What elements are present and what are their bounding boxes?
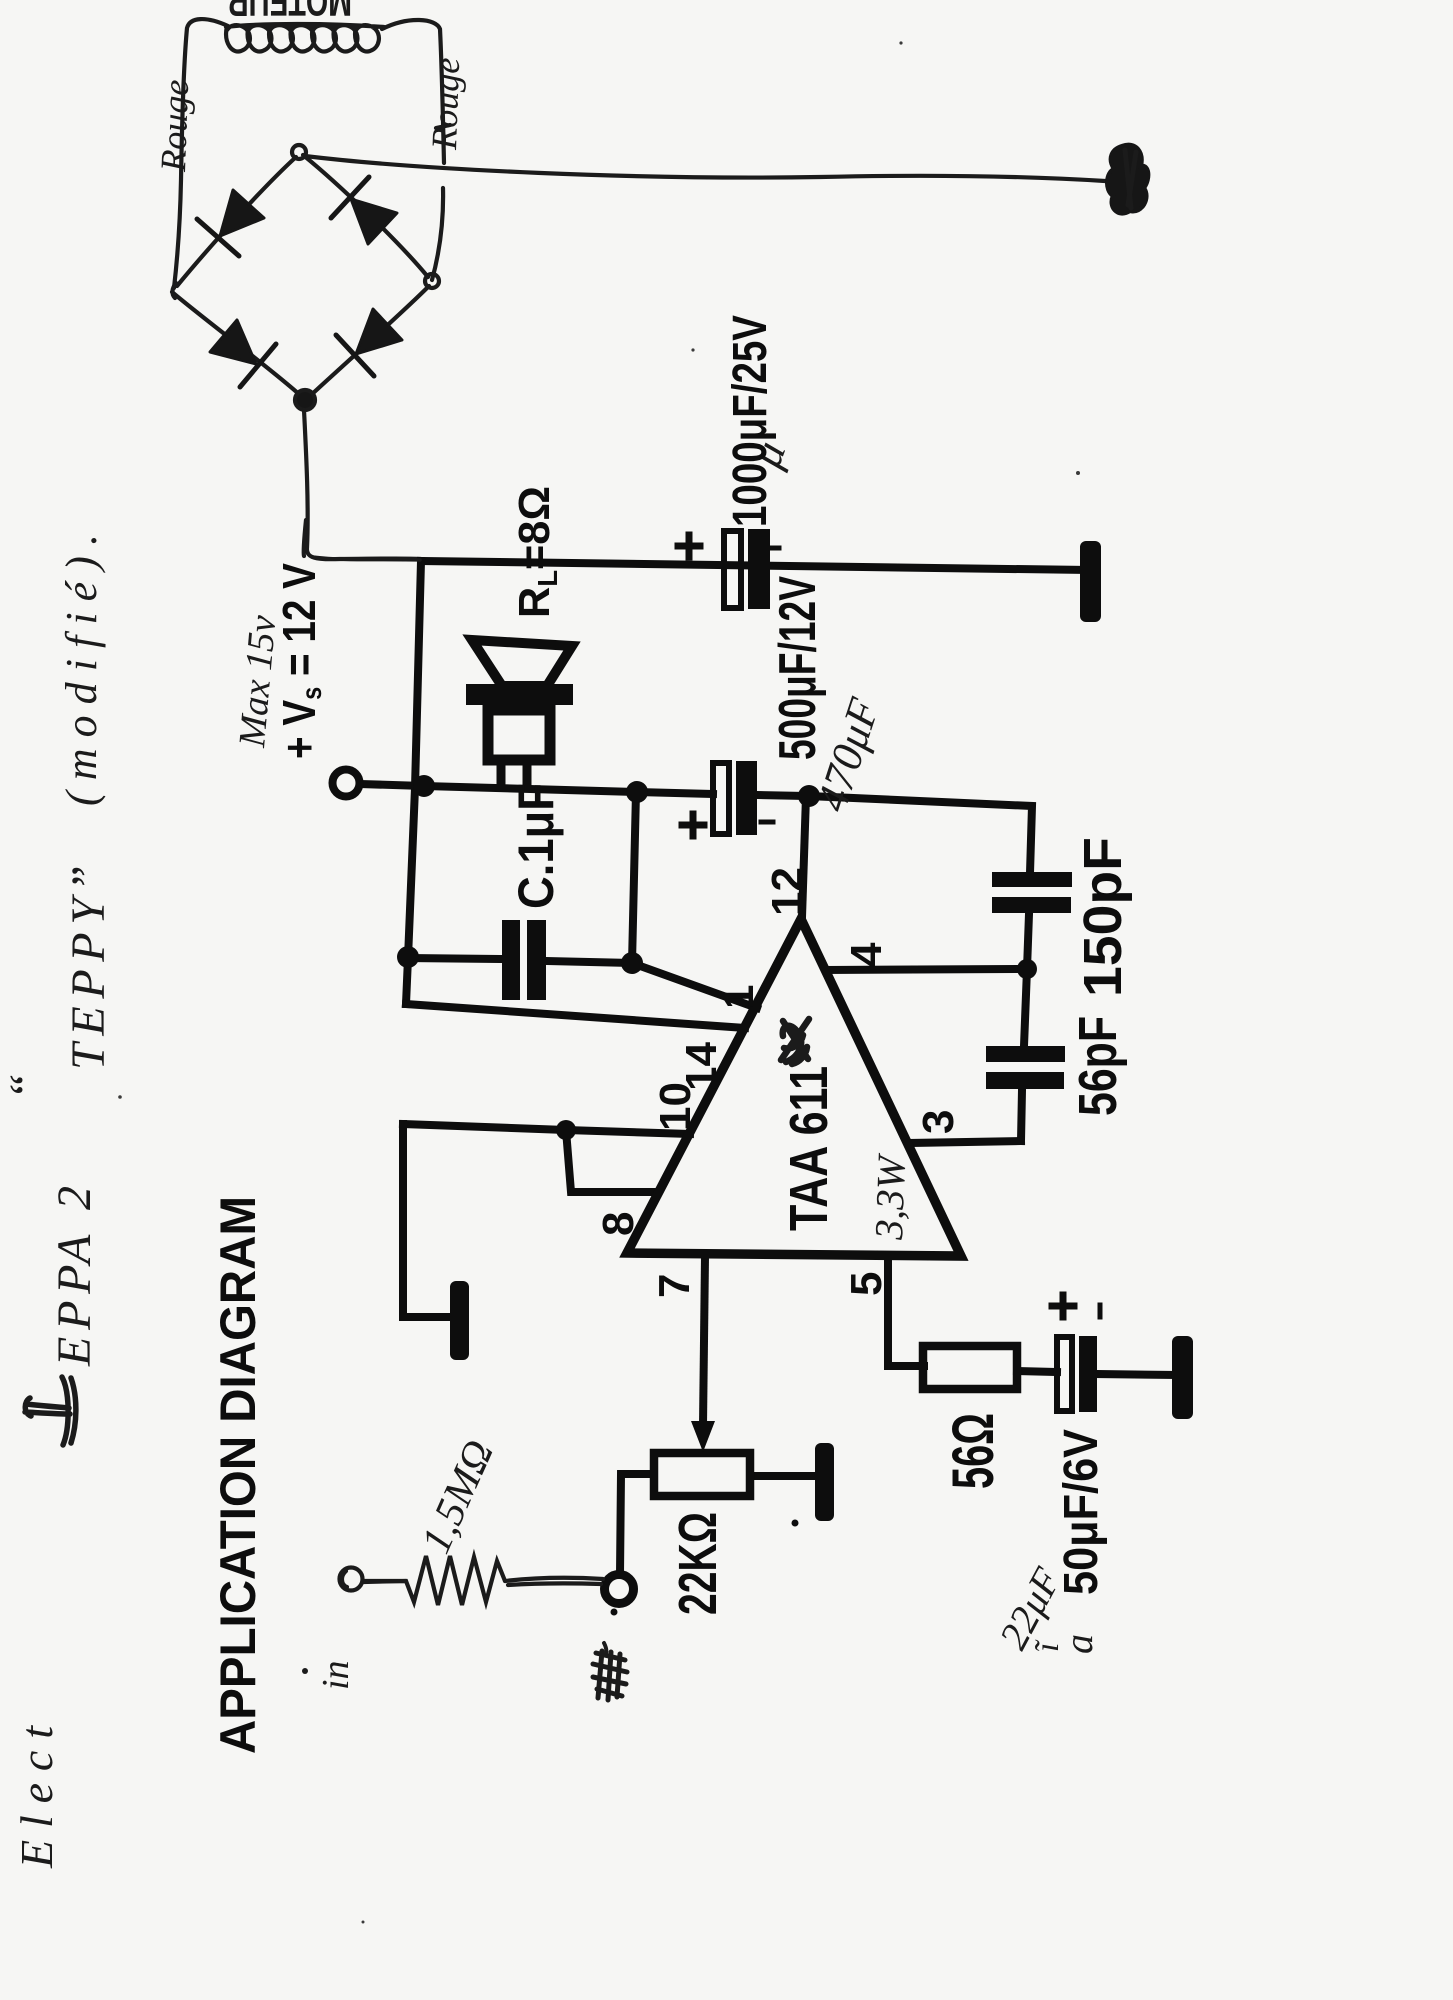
svg-text:TAA 611: TAA 611	[779, 1066, 839, 1231]
wire pot right lead to ground	[750, 1472, 816, 1480]
wire input to resistor	[363, 1579, 406, 1583]
wire pins 8/10 to ground	[403, 1124, 452, 1317]
wire node to 500uF and pin12 node	[424, 786, 809, 796]
node pin12/output junction	[798, 785, 820, 807]
500uF minus	[761, 820, 773, 825]
capacitor 1000uF/25V plates	[724, 531, 741, 608]
resistor 1.5M zigzag	[363, 1556, 505, 1605]
svg-text:12: 12	[763, 867, 812, 916]
ground bar pins 8/10	[450, 1281, 469, 1360]
ground bar supply rail right	[1080, 541, 1101, 622]
svg-text:8: 8	[594, 1212, 643, 1236]
svg-text:RL=8Ω: RL=8Ω	[510, 486, 563, 618]
svg-text:56pF: 56pF	[1068, 1016, 1128, 1116]
wire +Vs supply rail	[423, 561, 1086, 570]
node pin1/cap junction	[621, 952, 643, 974]
node pins 8/10 junction	[556, 1120, 576, 1140]
wire pin 5	[888, 1257, 924, 1366]
diode D1 top-left	[220, 190, 264, 236]
svg-text:+ Vs = 12 V: + Vs = 12 V	[273, 563, 327, 759]
node bridge left vertex	[172, 283, 176, 298]
diode D4 bottom-right	[356, 309, 402, 354]
capacitor 50uF/6V plates	[1057, 1337, 1072, 1411]
hand overlay on rail	[312, 557, 420, 560]
svg-text:7: 7	[650, 1274, 699, 1298]
wire Vs terminal to node	[360, 784, 424, 786]
speaker legs	[501, 762, 527, 787]
terminal pot input open circle	[605, 1575, 634, 1604]
speaker RL cone	[472, 640, 572, 686]
wire long lead from bridge top vertex to terminal blob	[305, 156, 1105, 181]
wire supply vertical drop	[406, 561, 421, 1004]
wire pin 1 through C.1uF	[408, 958, 757, 1008]
op-amp U1 TAA611 triangle	[627, 919, 961, 1256]
svg-text:APPLICATION DIAGRAM: APPLICATION DIAGRAM	[210, 1196, 266, 1754]
node +Vs junction	[413, 775, 435, 797]
svg-text:MOTEUR: MOTEUR	[228, 0, 352, 25]
terminal input open circle hand-drawn	[340, 1568, 363, 1591]
svg-text:56Ω: 56Ω	[941, 1413, 1006, 1489]
wire motor right lead	[382, 20, 444, 163]
svg-text:1: 1	[714, 985, 763, 1009]
wire 56ohm to 50uF	[1017, 1371, 1057, 1372]
wire pin12 node to feedback line, down to 150pF	[809, 796, 1032, 873]
capacitor 500uF/12V plates	[713, 763, 729, 834]
1000uF plus	[678, 535, 700, 557]
svg-text:”: ”	[62, 865, 115, 892]
svg-text:50μF/6V: 50μF/6V	[1055, 1429, 1108, 1595]
wire pin 8	[566, 1130, 658, 1192]
node speaker/cap junction	[626, 781, 648, 803]
svg-text:in: in	[315, 1660, 357, 1690]
ground bar pot	[815, 1443, 834, 1521]
terminal scribble blob	[1107, 145, 1148, 214]
wire pin 3	[908, 1141, 1021, 1143]
inductor motor coil	[226, 24, 384, 52]
1000uF minus	[766, 546, 779, 551]
svg-text:22KΩ: 22KΩ	[668, 1512, 728, 1615]
wire 50uF to ground	[1097, 1374, 1173, 1375]
wire bridge output down to supply rail	[304, 410, 421, 559]
svg-text:3,3W: 3,3W	[866, 1152, 914, 1242]
wire 150pF to node to 56pF to pin3 line	[1021, 914, 1029, 1141]
svg-text:1000μF/25V: 1000μF/25V	[724, 315, 777, 527]
speaker box	[488, 710, 550, 760]
wire pin 12 output stub	[802, 796, 806, 917]
svg-text:500μF/12V: 500μF/12V	[769, 576, 827, 760]
node bridge bottom vertex junction	[295, 390, 315, 410]
svg-text:a: a	[1056, 1634, 1101, 1654]
svg-text:3: 3	[914, 1110, 963, 1134]
svg-text:150pF: 150pF	[1073, 837, 1133, 997]
capacitor 150pF plates	[992, 872, 1072, 887]
svg-text:Rouge: Rouge	[153, 79, 196, 173]
ground scribble below input	[593, 1651, 627, 1700]
diode D3 bottom-left	[210, 320, 256, 364]
wire pin 14	[406, 1004, 745, 1028]
wire resistor to pot terminal (double stroke)	[505, 1578, 603, 1585]
svg-text:C.1μF: C.1μF	[508, 783, 564, 909]
wire motor left lead	[174, 19, 228, 288]
node bridge right vertex	[425, 274, 439, 288]
speck dots	[611, 1609, 618, 1616]
diode bridge edges	[177, 157, 296, 286]
svg-text:Rouge: Rouge	[424, 57, 467, 151]
terminal +Vs open circle	[333, 770, 360, 797]
scribble after 611	[781, 1019, 809, 1064]
500uF plus	[682, 814, 704, 836]
node pin1 line left junction	[397, 946, 419, 968]
diode D2 top-right	[351, 199, 397, 244]
wire node down to pin1 line	[632, 792, 636, 963]
wire pin 10	[403, 1124, 690, 1134]
handwritten big T	[25, 1377, 76, 1445]
wire pot left lead to input circle	[620, 1474, 654, 1574]
capacitor C.1uF plates	[502, 920, 520, 1000]
node feedback junction pin4	[1017, 959, 1037, 979]
speaker bar	[466, 684, 573, 705]
wire pin 7 to pot wiper	[703, 1257, 705, 1425]
svg-text:4: 4	[842, 942, 891, 967]
capacitor 56pF plates	[986, 1046, 1065, 1062]
50uF plus	[1052, 1295, 1074, 1317]
svg-text:10: 10	[651, 1082, 700, 1131]
ground bar 50uF	[1172, 1336, 1193, 1419]
svg-text:TEPPY: TEPPY	[62, 894, 115, 1070]
svg-text:5: 5	[842, 1272, 891, 1296]
wire pin 4	[826, 969, 1027, 970]
svg-text:“: “	[0, 1073, 53, 1100]
node bridge top vertex	[292, 145, 306, 159]
resistor 56 ohm	[923, 1346, 1017, 1389]
potentiometer 22K body	[654, 1453, 750, 1496]
50uF minus	[1098, 1305, 1103, 1317]
potentiometer wiper arrowhead	[691, 1421, 715, 1452]
